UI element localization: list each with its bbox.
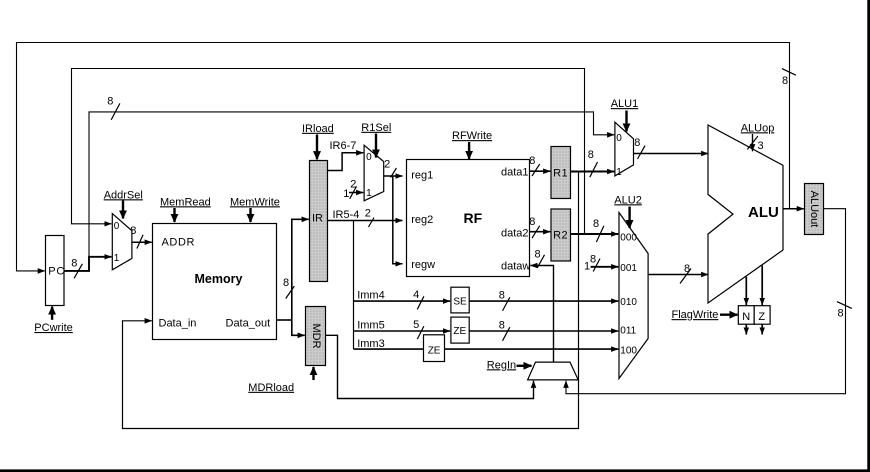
svg-text:ALU2: ALU2 <box>614 194 642 206</box>
svg-text:100: 100 <box>620 346 637 357</box>
bus slash 8 on ALUout feedback vertical <box>837 302 852 320</box>
svg-text:000: 000 <box>620 232 637 243</box>
svg-text:8: 8 <box>499 290 505 302</box>
wire Imm5 to ZE <box>354 330 451 332</box>
wire R1Sel mux output to RF reg1 <box>384 175 403 177</box>
mux ALU1 <box>615 122 634 178</box>
svg-text:regw: regw <box>411 259 435 271</box>
wire junction down to MDR input <box>292 320 305 335</box>
bus slash 8 on dataw <box>535 248 545 268</box>
svg-text:AddrSel: AddrSel <box>104 189 143 201</box>
memory block Memory <box>153 224 277 340</box>
svg-text:010: 010 <box>620 297 637 308</box>
svg-text:8: 8 <box>529 155 535 167</box>
svg-text:RF: RF <box>464 210 483 226</box>
svg-text:ZE: ZE <box>453 326 466 337</box>
svg-text:R2: R2 <box>553 230 568 242</box>
svg-text:8: 8 <box>838 308 844 320</box>
sign extender SE <box>451 287 469 313</box>
svg-text:ALU: ALU <box>748 204 779 221</box>
wire R1 output to ALU1 mux input 1 <box>571 171 615 173</box>
svg-text:SE: SE <box>453 297 467 308</box>
svg-text:5: 5 <box>413 319 419 331</box>
svg-text:001: 001 <box>620 263 637 274</box>
label Imm4 and slash 4 <box>357 289 424 309</box>
wire IR bits 6-7 to R1Sel mux input 0 <box>328 153 364 171</box>
svg-text:Data_in: Data_in <box>159 318 197 330</box>
labels 1 / 8 on ALU2 constant input <box>584 254 600 273</box>
control signal ALUop with width 3 <box>741 122 775 152</box>
bus slash 8 on R1 output <box>588 149 598 177</box>
wire constant 1 to R1Sel mux input 1 <box>349 192 363 194</box>
svg-text:8: 8 <box>590 254 596 266</box>
bus slash 2 on R1Sel output <box>384 159 396 178</box>
svg-text:1: 1 <box>114 253 120 264</box>
svg-text:data2: data2 <box>501 228 529 240</box>
svg-text:011: 011 <box>620 325 636 336</box>
control signal AddrSel <box>104 189 143 218</box>
register file RF <box>407 160 531 277</box>
wire ALU to N flag <box>745 277 747 305</box>
mux R1Sel <box>364 145 384 201</box>
wire ALU output to ALUout register <box>783 208 804 210</box>
svg-text:3: 3 <box>758 140 764 152</box>
bus slash 8 on data2 <box>529 216 539 238</box>
wire PC to ALU1 mux input 0 (long loop) <box>89 112 614 257</box>
control signal MemWrite <box>230 196 280 222</box>
svg-text:PC: PC <box>48 266 65 278</box>
svg-text:8: 8 <box>71 258 77 270</box>
flag register Z <box>754 306 770 325</box>
svg-text:Z: Z <box>758 311 765 323</box>
mux ALU2 <box>619 213 648 379</box>
svg-text:2: 2 <box>365 208 371 220</box>
control signal RFWrite <box>452 130 492 159</box>
wire constant 1 to ALU2 mux input 001 <box>591 266 619 268</box>
svg-text:Imm4: Imm4 <box>357 290 385 302</box>
svg-text:8: 8 <box>684 263 690 275</box>
wire IR bits 5-4 to RF reg2 <box>328 220 403 222</box>
svg-text:R1: R1 <box>553 168 568 180</box>
svg-text:8: 8 <box>593 218 599 230</box>
svg-text:IRload: IRload <box>302 123 334 135</box>
bus slash 8 on PC feedback vertical <box>782 69 796 87</box>
wire Imm4 to SE <box>354 300 451 302</box>
bus slash 8 on data1 <box>529 155 539 176</box>
register PC <box>46 236 66 306</box>
control signal ALU2 <box>614 194 642 228</box>
svg-text:ADDR: ADDR <box>162 237 196 249</box>
svg-text:IR5-4: IR5-4 <box>333 209 360 221</box>
register ALUout <box>805 184 824 235</box>
svg-text:Data_out: Data_out <box>226 318 271 330</box>
control signal MDRload <box>248 367 313 394</box>
svg-text:ALUop: ALUop <box>741 122 775 134</box>
svg-text:ZE: ZE <box>428 345 441 356</box>
wire immediate spine from IR5-4 junction down <box>353 221 355 350</box>
svg-text:2: 2 <box>384 159 390 171</box>
svg-text:MDR: MDR <box>310 323 322 348</box>
bus slash 8 on R2 output <box>593 218 604 242</box>
bus slash 8 on SE output <box>499 290 510 311</box>
svg-text:1: 1 <box>366 188 372 199</box>
svg-text:R1Sel: R1Sel <box>361 122 391 134</box>
svg-text:8: 8 <box>634 137 640 149</box>
zero extender ZE (Imm5) <box>451 317 469 343</box>
image right border <box>867 0 870 472</box>
svg-text:IR6-7: IR6-7 <box>330 140 357 152</box>
wire Z flag output down <box>761 324 763 334</box>
control signal PCwrite <box>34 307 73 335</box>
wire junction up to IR input <box>292 219 309 320</box>
svg-text:8: 8 <box>499 320 505 332</box>
svg-text:8: 8 <box>535 248 541 260</box>
bus slash 8 on AddrSel output <box>130 225 143 249</box>
svg-text:4: 4 <box>413 289 419 301</box>
flag register N <box>738 306 754 325</box>
register MDR <box>306 307 326 366</box>
register IR <box>310 161 328 282</box>
wire ALUout output feedback to RegIn mux right input <box>566 209 846 394</box>
svg-text:1: 1 <box>616 167 622 178</box>
wire R1 output down to Memory Data_in (store path) <box>123 172 579 429</box>
wire ALU2 mux output to ALU lower input <box>648 274 708 276</box>
wire MDR output to RegIn mux left input <box>326 335 534 398</box>
svg-text:2: 2 <box>350 179 356 191</box>
svg-text:N: N <box>742 311 750 323</box>
bus slash 8 on ALU2 mux output <box>680 263 691 284</box>
svg-text:PCwrite: PCwrite <box>34 322 73 334</box>
register R2 <box>551 209 571 261</box>
svg-text:IR: IR <box>312 213 323 225</box>
svg-text:Imm5: Imm5 <box>357 320 385 332</box>
svg-text:8: 8 <box>588 149 594 161</box>
svg-text:Imm3: Imm3 <box>357 338 385 350</box>
svg-text:ALUout: ALUout <box>808 191 820 228</box>
svg-text:0: 0 <box>114 221 120 232</box>
wire N flag output down <box>745 324 747 334</box>
bus slash 8 on ALU1 mux output <box>634 137 645 159</box>
label Imm3 <box>357 338 385 350</box>
mux RegIn <box>528 362 579 380</box>
control signal IRload <box>302 123 334 160</box>
control signal RegIn <box>487 359 532 371</box>
svg-text:8: 8 <box>107 96 113 108</box>
control signal R1Sel <box>361 122 391 158</box>
wire SE output to ALU2 mux input 010 <box>469 300 618 302</box>
bus slash 8 on Data_out-to-IR vertical <box>283 277 294 299</box>
wire PC output elbow to AddrSel mux input 1 <box>64 257 112 271</box>
svg-text:data1: data1 <box>501 167 529 179</box>
wire RegIn mux output to RF dataw <box>530 266 553 363</box>
register R1 <box>551 147 571 199</box>
wire RF data1 to R1 <box>530 170 551 172</box>
wire R2 output to ALU2 mux input 000 <box>571 233 619 235</box>
svg-text:reg2: reg2 <box>411 214 433 226</box>
bus slash 8 on ZE output <box>499 320 510 341</box>
svg-text:8: 8 <box>529 216 535 228</box>
wire ALU output feedback loop to PC (net PCin) <box>17 43 790 271</box>
zero extender ZE (Imm3) <box>424 335 445 362</box>
label Imm5 and slash 5 <box>357 319 424 339</box>
svg-text:dataw: dataw <box>501 261 530 273</box>
wire R2 to AddrSel mux input 0 (net MemAddr) <box>72 69 585 235</box>
svg-text:8: 8 <box>283 277 289 289</box>
svg-text:MemWrite: MemWrite <box>230 196 280 208</box>
control signal ALU1 <box>611 98 639 131</box>
wire RF data2 to R2 <box>530 231 551 233</box>
svg-text:MemRead: MemRead <box>160 196 211 208</box>
wire ZE output to ALU2 mux input 011 <box>469 330 618 332</box>
bus slash 8 on PC-to-ALU1 loop <box>107 96 120 120</box>
svg-text:8: 8 <box>782 75 788 87</box>
bus slash 8 on PC output <box>71 258 82 279</box>
label IR5-4 and slash 2 <box>333 208 375 227</box>
labels 2 / 1 on R1Sel constant input <box>343 179 356 201</box>
svg-text:0: 0 <box>366 152 372 163</box>
svg-text:ALU1: ALU1 <box>611 98 639 110</box>
label IR6-7 <box>330 140 357 152</box>
wire ALU1 mux output to ALU upper input <box>634 153 709 155</box>
wire R1Sel mux output branch down to RF regw <box>393 176 403 264</box>
op-amp style ALU block <box>708 125 783 303</box>
wire ALU to Z flag <box>761 266 763 306</box>
svg-text:FlagWrite: FlagWrite <box>672 309 719 321</box>
svg-text:RFWrite: RFWrite <box>452 130 492 142</box>
image bottom border <box>0 469 870 472</box>
wire AddrSel mux output to Memory ADDR <box>132 241 152 243</box>
svg-text:RegIn: RegIn <box>487 359 516 371</box>
svg-text:1: 1 <box>343 188 349 200</box>
control signal FlagWrite <box>672 309 738 321</box>
mux AddrSel <box>112 214 132 270</box>
wire Imm3 to ALU2 mux input 100 <box>354 348 619 350</box>
svg-text:0: 0 <box>616 133 622 144</box>
wire Memory Data_out to junction <box>277 319 292 321</box>
svg-text:MDRload: MDRload <box>248 382 294 394</box>
svg-text:Memory: Memory <box>195 272 243 286</box>
svg-text:reg1: reg1 <box>411 170 433 182</box>
control signal MemRead <box>160 196 211 222</box>
